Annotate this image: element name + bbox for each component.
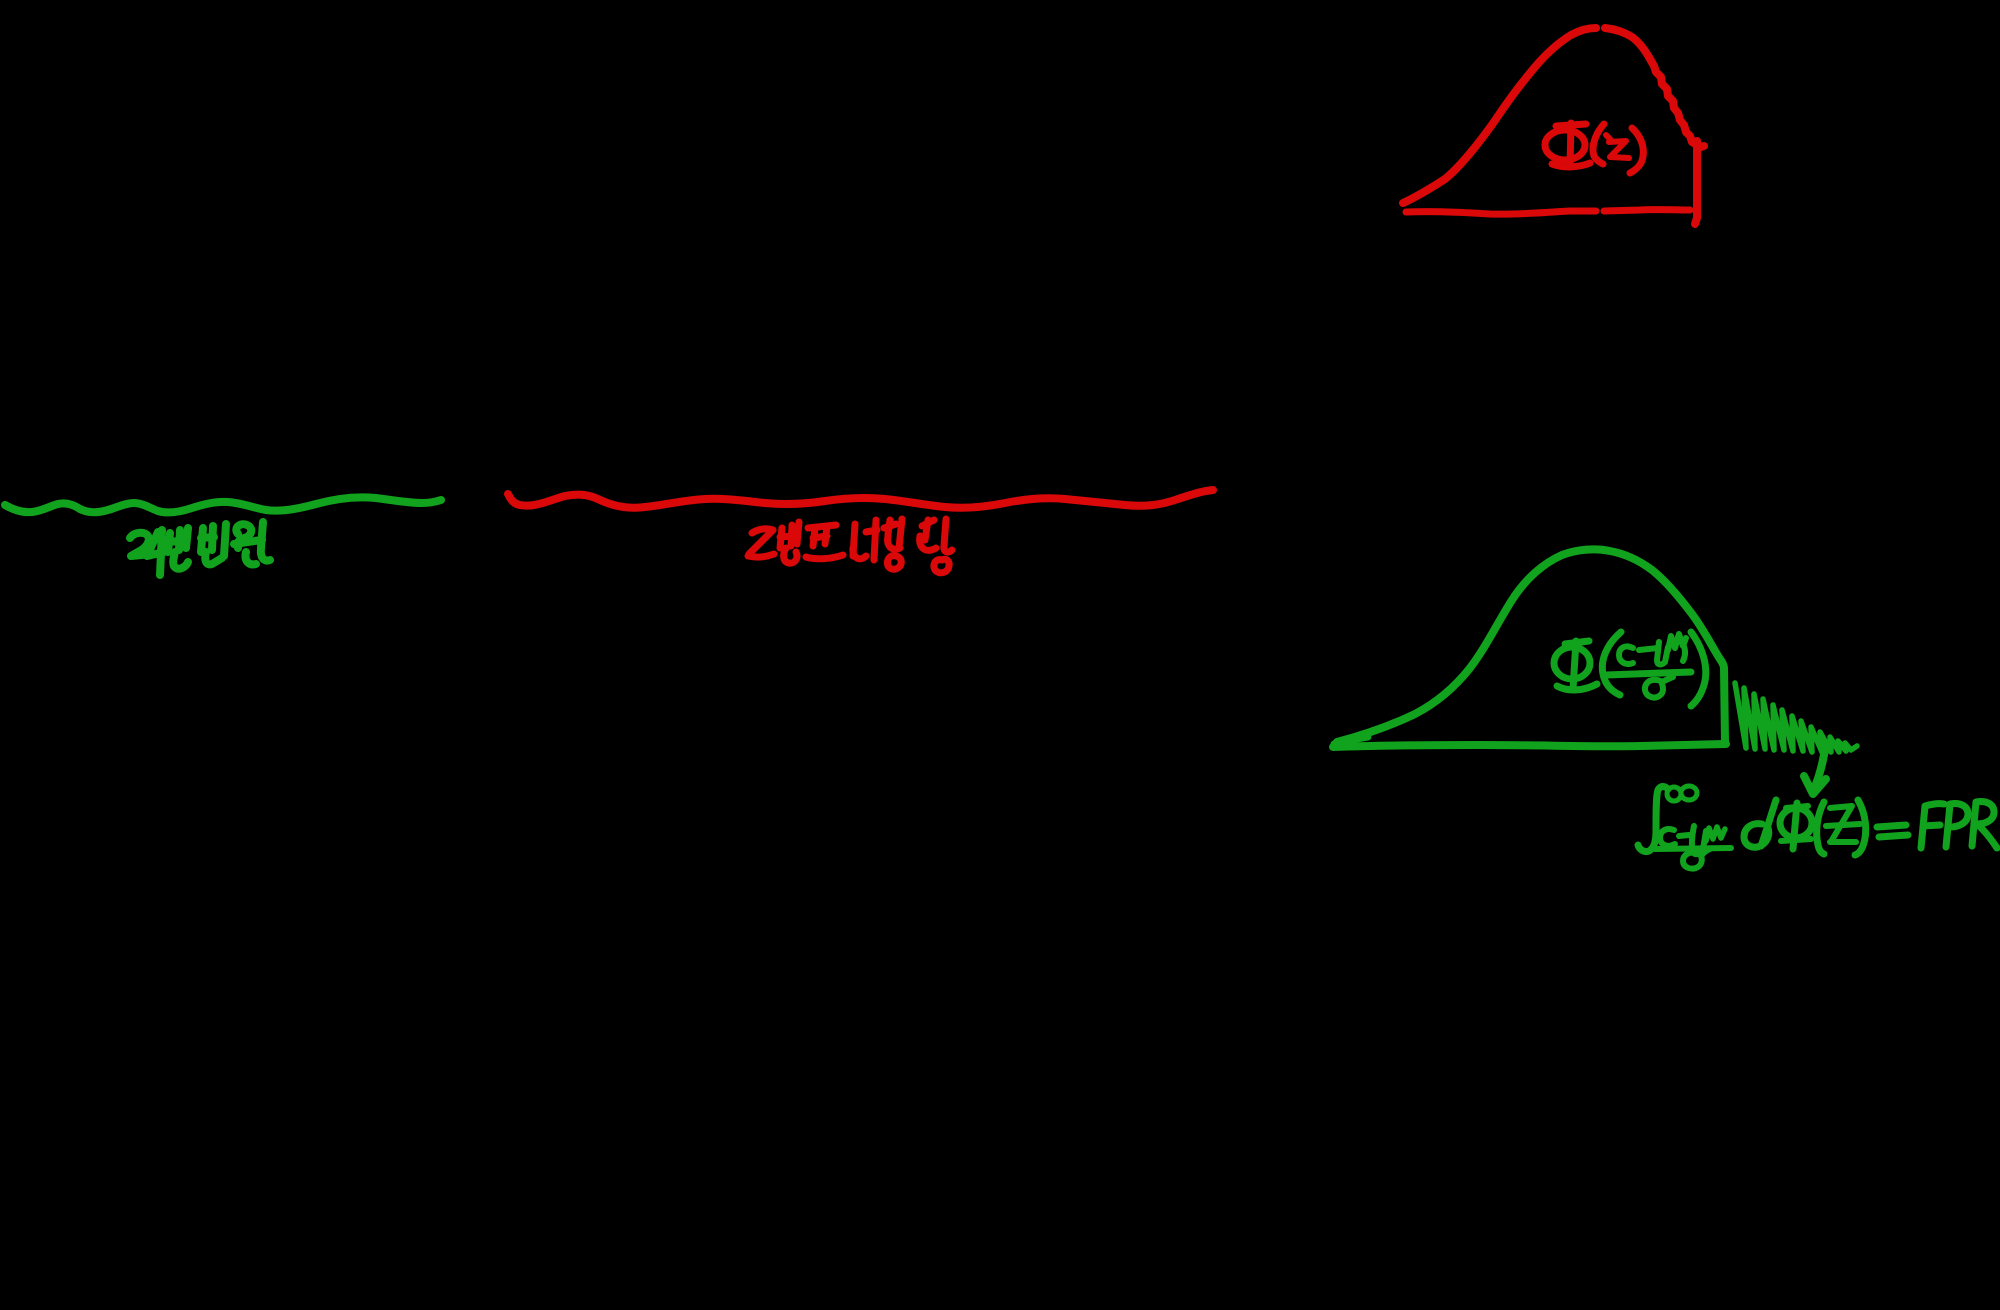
red label z tick	[1606, 135, 1610, 139]
green formula close paren	[1855, 800, 1866, 855]
green label sigma	[1645, 677, 1673, 698]
green formula phi top bar	[1786, 806, 1808, 808]
green integral-transform underline squiggle	[5, 497, 441, 512]
green label fraction bar	[1606, 672, 1691, 675]
red distribution-symmetry underline squiggle	[508, 490, 1213, 508]
green R	[1972, 801, 1997, 848]
green label c	[1619, 646, 1633, 664]
green label big close paren	[1691, 632, 1706, 706]
red korean label char dae	[853, 524, 855, 556]
green F	[1921, 804, 1944, 848]
green label phi circle	[1554, 647, 1590, 679]
green lower limit w	[1706, 827, 1725, 841]
green lower limit underline	[1655, 848, 1731, 849]
green equals	[1877, 825, 1908, 837]
green d loop	[1744, 824, 1769, 848]
red korean label char po	[808, 525, 836, 528]
green formula z strike	[1826, 824, 1860, 826]
green label mu	[1657, 642, 1668, 664]
green gaussian curve	[1337, 549, 1725, 743]
red label close paren	[1630, 128, 1643, 173]
green lower limit c	[1660, 829, 1675, 846]
green lower limit minus	[1679, 835, 1689, 836]
green formula phi stem	[1793, 803, 1797, 849]
red gaussian baseline right part	[1604, 210, 1690, 211]
red korean label char bun	[780, 525, 793, 548]
red korean label char seong	[922, 520, 934, 540]
green label phi top bar	[1565, 641, 1589, 644]
green arrow head	[1804, 776, 1826, 794]
green label big open paren	[1602, 632, 1621, 695]
green korean label char byeon	[201, 526, 214, 552]
green integral sign	[1638, 786, 1668, 851]
green label phi bottom tail	[1557, 684, 1597, 690]
red label open paren	[1593, 124, 1604, 164]
green label phi stem	[1573, 641, 1576, 689]
green label small close paren	[1678, 637, 1685, 661]
green formula phi bottom bar	[1781, 839, 1811, 841]
red label phi bottom bar	[1552, 163, 1590, 167]
green formula z bottom	[1830, 839, 1856, 845]
green lower limit sigma loop	[1683, 849, 1710, 869]
green d stem	[1761, 800, 1776, 846]
green gaussian left tail overlap stroke	[1334, 737, 1368, 744]
red label z	[1609, 141, 1629, 158]
red gaussian right vertical edge	[1695, 141, 1697, 224]
red korean label char ching	[884, 520, 896, 534]
green korean label char bun	[168, 530, 180, 552]
green infinity	[1667, 787, 1681, 801]
green formula phi circle	[1780, 808, 1812, 838]
green korean label char hwan	[236, 524, 251, 548]
green korean label char jeok	[130, 533, 152, 556]
red gaussian curve right slope	[1605, 28, 1704, 147]
red label phi circle	[1545, 130, 1585, 160]
red korean label char geu	[749, 529, 773, 554]
green arrow stem	[1814, 743, 1826, 789]
red label phi top bar	[1556, 124, 1586, 126]
red gaussian baseline left part	[1406, 211, 1596, 214]
red gaussian curve left slope	[1403, 28, 1596, 203]
green P	[1946, 803, 1968, 847]
green lower limit mu	[1692, 826, 1706, 854]
green formula z top	[1830, 806, 1852, 840]
green hatched tail zigzag	[1735, 683, 1857, 752]
green gaussian baseline	[1333, 744, 1726, 747]
green label w	[1668, 634, 1686, 650]
red label phi stem	[1570, 123, 1571, 167]
green formula open paren	[1817, 802, 1824, 854]
green label minus	[1639, 648, 1658, 650]
